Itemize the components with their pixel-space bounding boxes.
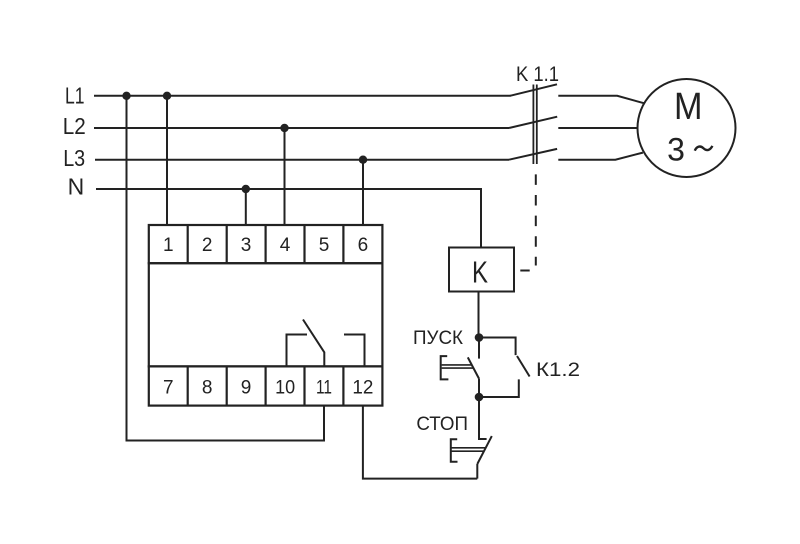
wire node A to contact K1.2 — [479, 338, 516, 356]
wire L3 bus — [95, 159, 509, 161]
terminal strip bottom (terminals 7-12) — [149, 366, 383, 405]
stop button SB2 actuator rod — [452, 448, 486, 451]
contact K1.1 linkage bar — [533, 85, 536, 165]
start button SB1 fixed stub — [478, 338, 480, 359]
wire N bus to coil K — [96, 189, 481, 248]
svg-text:2: 2 — [202, 235, 213, 256]
wire L3 to motor — [558, 153, 643, 160]
svg-text:7: 7 — [163, 377, 174, 398]
svg-text:К1.2: К1.2 — [536, 359, 580, 381]
contact K1.1 blade L1 — [510, 84, 557, 96]
node L1 feed to control circuit — [122, 92, 130, 100]
stop button SB2 fixed stub — [479, 397, 487, 439]
svg-text:N: N — [68, 174, 85, 200]
motor tilde symbol — [695, 146, 713, 151]
wire L1 bus — [94, 95, 511, 97]
wire L1 to terminal 1 — [166, 96, 168, 225]
svg-text:11: 11 — [316, 377, 332, 398]
svg-text:4: 4 — [280, 235, 291, 256]
svg-text:K 1.1: K 1.1 — [516, 62, 559, 86]
contact K1.1 blade L3 — [509, 149, 557, 160]
svg-text:L2: L2 — [63, 113, 86, 139]
svg-text:9: 9 — [241, 377, 252, 398]
stop button SB2 actuator bracket — [451, 439, 458, 462]
wire coil K to node A — [478, 292, 480, 334]
relay device body — [149, 263, 383, 366]
svg-text:ПУСК: ПУСК — [413, 327, 464, 349]
svg-text:6: 6 — [358, 235, 369, 256]
svg-text:8: 8 — [202, 377, 213, 398]
svg-text:5: 5 — [319, 235, 330, 256]
wire L2 to terminal 4 — [284, 128, 286, 225]
wire contact K1.2 to node B — [479, 379, 519, 397]
start button SB1 actuator bracket — [441, 356, 449, 379]
contact K1.1 blade L2 — [509, 117, 557, 128]
internal relay contact: fixed contact from terminal 10 — [287, 335, 308, 367]
mechanical link dash at coil — [520, 270, 529, 272]
wire L2 to motor — [558, 127, 638, 129]
svg-text:L1: L1 — [65, 82, 85, 108]
internal relay contact: blade from terminal 11 — [303, 320, 324, 367]
svg-text:K: K — [472, 255, 488, 290]
wire L2 bus — [94, 127, 509, 129]
stop button SB2 lower stub — [476, 464, 478, 479]
node L1 to terminal 1 — [163, 92, 171, 100]
svg-text:СТОП: СТОП — [416, 414, 468, 435]
mechanical link dashed to coil K — [535, 174, 537, 265]
svg-text:12: 12 — [352, 377, 373, 398]
start button SB1 blade — [468, 357, 479, 378]
start button SB1 actuator rod — [442, 365, 474, 368]
stop button SB2 blade — [477, 436, 492, 464]
node A (junction above start button) — [475, 333, 484, 342]
motor M1 circle — [638, 79, 736, 177]
svg-text:10: 10 — [275, 377, 295, 398]
node B (junction below start button) — [475, 393, 484, 402]
internal relay contact: fixed contact bracket to terminal 12 — [344, 335, 365, 367]
node L2 to terminal 4 — [280, 124, 288, 132]
node N to terminal 3 — [242, 185, 250, 193]
svg-text:1: 1 — [163, 235, 174, 256]
svg-text:M: M — [674, 86, 703, 128]
start button SB1 stub to node B — [478, 379, 480, 397]
wire L1 to motor — [558, 96, 644, 103]
wire L3 to terminal 6 — [362, 160, 364, 225]
wire N to terminal 3 — [245, 189, 247, 225]
wire L1 to terminal 11 (left drop) — [127, 96, 325, 441]
svg-text:3: 3 — [667, 131, 685, 167]
svg-text:L3: L3 — [63, 145, 85, 171]
coil K box — [449, 248, 514, 292]
wire stop button to terminal 12 — [363, 406, 477, 479]
svg-text:3: 3 — [241, 235, 252, 256]
contact K1.2 blade — [517, 356, 530, 377]
terminal strip top (terminals 1-6) — [149, 225, 383, 263]
node L3 to terminal 6 — [359, 156, 367, 164]
